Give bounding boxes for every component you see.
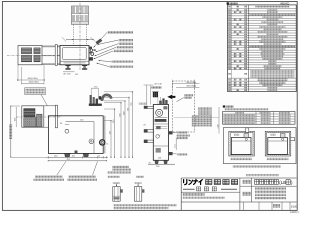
top view callout: water inlet label bbox=[117, 46, 133, 48]
front view: feet bbox=[65, 153, 70, 157]
front view: drain fitting bbox=[75, 151, 78, 154]
detail: L type pipe bbox=[134, 187, 141, 202]
side view: inner components bbox=[155, 119, 167, 122]
front view: exhaust elbow bbox=[101, 94, 112, 101]
note: bottom piping note bbox=[113, 204, 176, 206]
top view callout: heating connection label bbox=[112, 61, 134, 63]
top view: foot dimension 45-130 bbox=[63, 71, 75, 73]
spec table title bbox=[227, 2, 229, 4]
svg-text:(LB: (LB bbox=[279, 180, 286, 185]
side view: exhaust chimney stub bbox=[153, 92, 158, 97]
top view callout: exhaust side label bbox=[119, 39, 133, 41]
front view: pump circle dark bbox=[99, 140, 105, 146]
top view: mounting feet bbox=[65, 65, 70, 66]
svg-text:45~130: 45~130 bbox=[154, 83, 162, 85]
svg-text:=190: =190 bbox=[217, 124, 219, 128]
notes under spec table bbox=[223, 105, 225, 107]
side view: intake side tiny label bbox=[139, 103, 147, 105]
side view: body top fittings bbox=[159, 101, 162, 104]
top view: heater body inner cover bbox=[63, 47, 87, 59]
label box: intake chamber (option) bbox=[25, 88, 46, 95]
weight table bbox=[223, 112, 295, 125]
top view callout: flue top label bbox=[108, 31, 134, 33]
side view: exhaust port bracket label bbox=[151, 86, 161, 88]
top view: heater body rectangle bbox=[60, 46, 89, 65]
label: circulation port note box 2 bbox=[68, 176, 95, 178]
svg-text:1/100: 1/100 bbox=[291, 205, 298, 208]
svg-text:45~130: 45~130 bbox=[63, 74, 71, 76]
side view: right fitting labels bbox=[177, 131, 187, 133]
side view: exhaust part label bbox=[176, 134, 189, 136]
title block: gaikan row bbox=[183, 188, 195, 190]
front view: horizontal centerline bbox=[16, 116, 62, 118]
title block: model number lines bbox=[255, 187, 286, 189]
installation clearance box bbox=[223, 128, 296, 164]
svg-text:29: 29 bbox=[149, 162, 151, 164]
side view: left fittings bbox=[148, 105, 154, 107]
title block: company address lines bbox=[183, 193, 205, 195]
front view: heater body outline bbox=[48, 116, 103, 154]
label: circulation note leader 1 bbox=[57, 161, 66, 175]
top view callout: circulation connection label bbox=[110, 66, 134, 68]
spec table grid bbox=[228, 5, 297, 92]
front view: chamber height dim 296 bbox=[15, 107, 17, 127]
side view: optional chamber dashed outline bbox=[173, 81, 195, 132]
label: circulation note leader 2 bbox=[93, 161, 98, 175]
side view: right fittings bbox=[169, 131, 173, 134]
svg-text:(4B)(4C): (4B)(4C) bbox=[280, 3, 289, 6]
side view: height dim approx 190 bbox=[218, 107, 220, 134]
clearance diagram: top exhaust bbox=[229, 131, 255, 156]
side view: dim extension line for chimney bbox=[150, 86, 152, 105]
top view: flue duct hatched block bbox=[72, 6, 89, 25]
side view: dimension 161 bbox=[175, 138, 177, 150]
label: circulation port note box 1 bbox=[35, 176, 62, 178]
logo: Rinnai katakana bbox=[183, 180, 185, 183]
top view: flue centerline bbox=[79, 3, 81, 70]
top view: connecting duct bbox=[42, 45, 60, 47]
top view: right side fittings bbox=[90, 49, 93, 52]
title block: model cell label bbox=[242, 192, 251, 196]
side view: heat exchanger lines bbox=[155, 121, 167, 123]
top view: flue offset dimension line bbox=[66, 39, 94, 41]
side view: blower circle bbox=[156, 109, 163, 116]
svg-text:A1020-1: A1020-1 bbox=[290, 211, 299, 214]
clearance note below box bbox=[233, 165, 281, 167]
title block frame bbox=[180, 178, 182, 210]
front view right: height dimension lines bbox=[110, 121, 112, 158]
side view: chamber note text block bbox=[198, 107, 211, 109]
title block: name cell label bbox=[242, 180, 251, 184]
clearance diagram: side exhaust bbox=[265, 131, 291, 156]
top view: duct flange bbox=[55, 45, 57, 66]
top view: intake chamber with louvers bbox=[18, 46, 42, 65]
top view callout: hot water outlet label bbox=[114, 50, 133, 52]
title block: drawing title Gaikei Sunpouzu (LB) bbox=[255, 180, 259, 185]
front view: bottom dimension line bbox=[46, 156, 108, 158]
front view: circulation port circle bbox=[89, 139, 94, 144]
side view: exhaust side label with arrow bbox=[184, 94, 193, 96]
top view: flue dashed projection lines bbox=[73, 25, 75, 46]
svg-text:340(#300): 340(#300) bbox=[29, 81, 39, 83]
front view: gas cock circle bbox=[65, 129, 69, 133]
front view: intake chamber louver panel bbox=[22, 106, 44, 127]
front view: duct top edge bbox=[22, 105, 56, 107]
clearance captions bbox=[230, 158, 252, 160]
detail: foot valve pipe bbox=[113, 187, 120, 202]
front view: duct flange bbox=[55, 105, 57, 128]
spec table row texts bbox=[228, 6, 231, 8]
side view: feet and baseline bbox=[155, 160, 159, 163]
top view callout leader lines bbox=[94, 32, 108, 47]
front view: inner panel lines bbox=[66, 121, 95, 123]
logo: company suffix kanji bbox=[206, 180, 212, 185]
top view: horizontal centerline bbox=[7, 54, 60, 56]
side view: body outline bbox=[153, 105, 168, 161]
front view: left height dimension 466 bbox=[10, 106, 12, 157]
top view callout: gas connection label bbox=[119, 43, 133, 45]
svg-text:57: 57 bbox=[158, 135, 160, 137]
note: other parts field-supplied bbox=[246, 174, 279, 176]
title block: scale cell bbox=[273, 204, 280, 208]
front view: top fittings cluster bbox=[90, 95, 92, 106]
front view right: extension lines to fittings bbox=[104, 102, 122, 104]
note: drain pipe labels bbox=[112, 166, 129, 168]
svg-text:400(#200): 400(#200) bbox=[28, 78, 38, 80]
note: foot-valve type caption bbox=[108, 176, 120, 178]
note: L type caption bbox=[136, 176, 144, 178]
